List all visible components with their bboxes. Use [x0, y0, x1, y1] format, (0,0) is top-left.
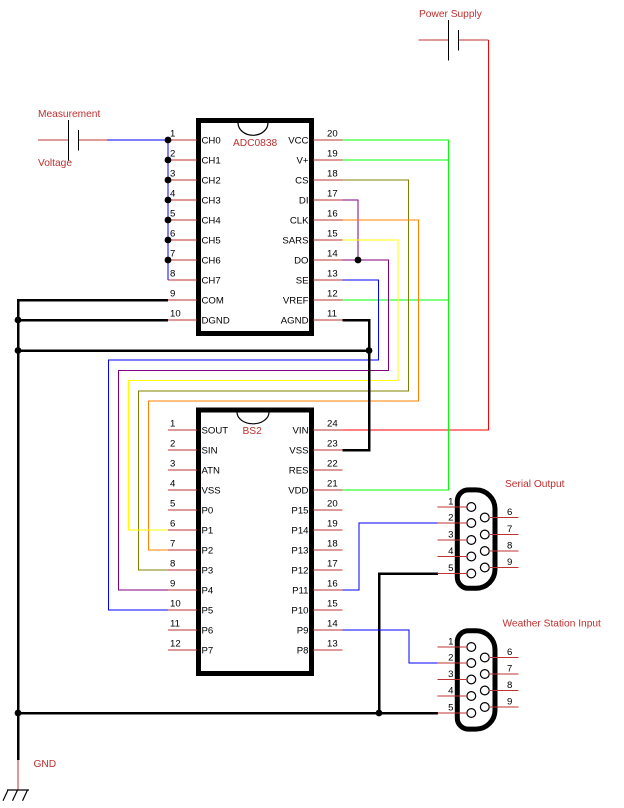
ADC0838 pin 4 CH3	[168, 199, 197, 201]
ADC0838 pin 7 CH6	[168, 259, 197, 261]
svg-text:VSS: VSS	[289, 446, 308, 457]
svg-text:13: 13	[327, 638, 338, 649]
svg-text:2: 2	[448, 652, 453, 663]
svg-text:1: 1	[170, 418, 175, 429]
svg-text:3: 3	[448, 529, 453, 540]
ground earth symbol	[3, 790, 29, 801]
svg-text:14: 14	[327, 618, 338, 629]
svg-text:CH2: CH2	[202, 176, 221, 187]
Serial Output pin 2	[467, 519, 476, 528]
wire orange CLK to P2	[149, 220, 419, 550]
svg-text:4: 4	[170, 478, 176, 489]
BS2 pin 19 P14	[313, 529, 343, 531]
svg-text:5: 5	[448, 563, 453, 574]
Weather Station Input pin 3	[467, 675, 476, 684]
svg-text:8: 8	[507, 680, 512, 691]
BS2 pin 15 P10	[313, 609, 343, 611]
BS2 pin 5 P0	[168, 509, 197, 511]
svg-text:6: 6	[507, 507, 512, 518]
svg-text:1: 1	[448, 496, 453, 507]
svg-text:VIN: VIN	[293, 426, 309, 437]
Weather Station Input pin 1	[467, 643, 476, 652]
svg-text:19: 19	[327, 148, 338, 159]
svg-text:P11: P11	[292, 586, 308, 597]
wire gnd serial DB9 pin5	[379, 574, 438, 714]
svg-text:P14: P14	[291, 526, 309, 537]
junction gnd AGND-VSS	[366, 347, 373, 354]
BS2 pin 12 P7	[168, 649, 197, 651]
ADC0838 pin 13 SE	[313, 279, 343, 281]
svg-text:8: 8	[507, 541, 512, 552]
power supply left lead wire	[419, 39, 449, 41]
svg-text:23: 23	[327, 438, 338, 449]
svg-text:6: 6	[507, 647, 512, 658]
IC U1 ADC0838	[199, 121, 312, 334]
BS2 pin 11 P6	[168, 629, 197, 631]
ADC0838 pin 9 COM	[168, 299, 197, 301]
Weather Station Input pin 6	[480, 653, 489, 662]
svg-text:P8: P8	[297, 646, 309, 657]
svg-text:Weather Station Input: Weather Station Input	[503, 619, 602, 630]
junction CH5	[165, 237, 172, 244]
svg-text:Power Supply: Power Supply	[419, 9, 483, 20]
svg-text:V+: V+	[296, 156, 308, 167]
svg-text:SE: SE	[296, 276, 309, 287]
svg-text:DI: DI	[299, 196, 309, 207]
svg-text:7: 7	[170, 248, 175, 259]
ground GND symbol lead	[17, 760, 19, 790]
junction CH3	[165, 197, 172, 204]
svg-text:4: 4	[448, 546, 454, 557]
BS2 pin 23 VSS	[313, 449, 343, 451]
svg-text:8: 8	[170, 268, 175, 279]
svg-text:6: 6	[170, 228, 175, 239]
svg-text:18: 18	[327, 168, 338, 179]
BS2 top notch	[237, 412, 269, 424]
svg-text:VREF: VREF	[283, 296, 309, 307]
Serial Output pin 6	[480, 513, 489, 522]
wire blue P9 to weather DB9 pin2	[343, 630, 439, 663]
svg-text:11: 11	[327, 308, 337, 319]
svg-text:DO: DO	[294, 256, 308, 267]
ADC0838 pin 3 CH2	[168, 179, 197, 181]
BS2 pin 14 P9	[313, 629, 343, 631]
svg-text:CLK: CLK	[290, 216, 309, 227]
svg-text:12: 12	[170, 638, 181, 649]
svg-text:3: 3	[448, 669, 453, 680]
svg-text:1: 1	[448, 636, 453, 647]
svg-text:21: 21	[327, 478, 338, 489]
svg-text:Serial Output: Serial Output	[505, 479, 565, 490]
BS2 pin 18 P13	[313, 549, 343, 551]
Serial Output pin 1	[467, 503, 476, 512]
ADC0838 pin 1 CH0	[168, 139, 197, 141]
svg-text:3: 3	[170, 458, 175, 469]
svg-text:14: 14	[327, 248, 338, 259]
Weather Station Input pin 4	[467, 692, 476, 701]
svg-text:7: 7	[507, 524, 512, 535]
ADC0838 pin 12 VREF	[313, 299, 343, 301]
svg-text:9: 9	[170, 288, 175, 299]
battery Power Supply: short plate	[458, 30, 460, 51]
svg-text:P2: P2	[202, 546, 214, 557]
svg-text:P13: P13	[291, 546, 308, 557]
svg-text:RES: RES	[289, 466, 309, 477]
BS2 pin 17 P12	[313, 569, 343, 571]
svg-text:P0: P0	[202, 506, 214, 517]
svg-text:5: 5	[170, 208, 175, 219]
ADC0838 pin 18 CS	[313, 179, 343, 181]
svg-text:15: 15	[327, 598, 338, 609]
BS2 pin 20 P15	[313, 509, 343, 511]
svg-text:P9: P9	[297, 626, 309, 637]
battery Measurement Voltage: long plate	[68, 120, 70, 161]
BS2 pin 1 SOUT	[168, 429, 197, 431]
wire green VREF	[343, 299, 449, 301]
svg-text:3: 3	[170, 168, 175, 179]
svg-text:CH7: CH7	[202, 276, 221, 287]
Weather Station Input pin 5	[467, 709, 476, 718]
svg-text:7: 7	[170, 538, 175, 549]
junction gnd serial pin5	[376, 710, 383, 717]
svg-text:BS2: BS2	[243, 426, 263, 437]
ADC0838 pin 19 V+	[313, 159, 343, 161]
svg-text:CH4: CH4	[202, 216, 222, 227]
ADC0838 pin 11 AGND	[313, 319, 343, 321]
svg-text:CH3: CH3	[202, 196, 221, 207]
svg-text:10: 10	[170, 598, 181, 609]
svg-text:VSS: VSS	[202, 486, 221, 497]
junction CH0	[165, 137, 172, 144]
svg-text:VCC: VCC	[288, 136, 308, 147]
connector Serial Output DB9 body	[457, 490, 495, 588]
svg-text:7: 7	[507, 664, 512, 675]
svg-text:20: 20	[327, 128, 338, 139]
junction gnd DGND	[15, 317, 22, 324]
BS2 pin 22 RES	[313, 469, 343, 471]
svg-text:COM: COM	[202, 296, 224, 307]
ADC0838 pin 17 DI	[313, 199, 343, 201]
svg-text:P10: P10	[291, 606, 308, 617]
wire gnd COM	[18, 300, 168, 760]
wire olive CS to P3	[139, 180, 409, 570]
svg-text:2: 2	[448, 512, 453, 523]
junction CH6	[165, 257, 172, 264]
Weather Station Input pin 2	[467, 659, 476, 668]
svg-text:CH0: CH0	[202, 136, 221, 147]
Serial Output pin 8	[480, 547, 489, 556]
BS2 pin 13 P8	[313, 649, 343, 651]
svg-text:5: 5	[170, 498, 175, 509]
battery Power Supply: long plate	[448, 20, 450, 61]
svg-text:P7: P7	[202, 646, 214, 657]
BS2 pin 9 P4	[168, 589, 197, 591]
wire green V+	[343, 159, 449, 161]
battery left lead wire	[38, 139, 68, 141]
svg-text:5: 5	[448, 702, 453, 713]
wire blue SE to P5	[109, 280, 379, 610]
svg-text:SARS: SARS	[282, 236, 308, 247]
svg-text:13: 13	[327, 268, 338, 279]
svg-text:4: 4	[170, 188, 176, 199]
svg-text:18: 18	[327, 538, 338, 549]
BS2 pin 16 P11	[313, 589, 343, 591]
Serial Output pin 7	[480, 530, 489, 539]
wire gnd AGND	[343, 320, 370, 450]
BS2 pin 24 VIN	[313, 429, 343, 431]
Serial Output pin 9	[480, 563, 489, 572]
connector Weather Station Input DB9 body	[457, 631, 495, 729]
wire gnd bottom bus	[18, 712, 438, 715]
svg-text:CH5: CH5	[202, 236, 221, 247]
svg-text:16: 16	[327, 578, 338, 589]
wire red power supply to VIN	[343, 40, 489, 430]
wire blue CH0 net from battery	[107, 139, 168, 141]
Weather Station Input pin 7	[480, 670, 489, 679]
svg-text:P15: P15	[291, 506, 308, 517]
wire blue CH0-CH7 bus vertical	[167, 140, 169, 280]
Weather Station Input pin 9	[480, 703, 489, 712]
svg-text:1: 1	[170, 128, 175, 139]
svg-text:9: 9	[507, 557, 512, 568]
wire gnd mid bus	[18, 349, 369, 352]
svg-text:DGND: DGND	[202, 316, 230, 327]
ADC0838 pin 16 CLK	[313, 219, 343, 221]
IC U2 BS2	[199, 410, 312, 674]
BS2 pin 2 SIN	[168, 449, 197, 451]
svg-text:CH1: CH1	[202, 156, 221, 167]
svg-text:10: 10	[170, 308, 181, 319]
svg-text:P4: P4	[202, 586, 214, 597]
svg-text:9: 9	[170, 578, 175, 589]
junction CH2	[165, 177, 172, 184]
svg-text:17: 17	[327, 188, 338, 199]
ADC0838 pin 20 VCC	[313, 139, 343, 141]
wire purple DO to P4	[119, 260, 389, 590]
Weather Station Input pin 8	[480, 686, 489, 695]
ADC0838 top notch	[238, 123, 268, 135]
BS2 pin 4 VSS	[168, 489, 197, 491]
svg-text:P12: P12	[291, 566, 308, 577]
svg-text:20: 20	[327, 498, 338, 509]
svg-text:9: 9	[507, 697, 512, 708]
junction gnd mid bus left	[15, 347, 22, 354]
svg-text:17: 17	[327, 558, 338, 569]
BS2 pin 10 P5	[168, 609, 197, 611]
BS2 pin 8 P3	[168, 569, 197, 571]
wire gnd DGND	[18, 319, 168, 322]
svg-text:24: 24	[327, 418, 338, 429]
Serial Output pin 5	[467, 569, 476, 578]
BS2 pin 7 P2	[168, 549, 197, 551]
svg-text:VDD: VDD	[288, 486, 308, 497]
junction CH4	[165, 217, 172, 224]
svg-text:16: 16	[327, 208, 338, 219]
svg-text:CS: CS	[295, 176, 308, 187]
ADC0838 pin 2 CH1	[168, 159, 197, 161]
ADC0838 pin 14 DO	[313, 259, 343, 261]
svg-text:8: 8	[170, 558, 175, 569]
wire blue P11 to serial DB9 pin2	[343, 523, 439, 590]
svg-text:P1: P1	[202, 526, 214, 537]
ADC0838 pin 5 CH4	[168, 219, 197, 221]
junction DI-DO	[355, 257, 362, 264]
svg-text:AGND: AGND	[281, 316, 309, 327]
BS2 pin 6 P1	[168, 529, 197, 531]
Serial Output pin 3	[467, 536, 476, 545]
wire yellow SARS to P1	[129, 240, 399, 530]
BS2 pin 3 ATN	[168, 469, 197, 471]
svg-text:19: 19	[327, 518, 338, 529]
svg-text:ADC0838: ADC0838	[233, 138, 278, 149]
svg-text:P6: P6	[202, 626, 214, 637]
svg-text:2: 2	[170, 148, 175, 159]
wire green VCC	[343, 140, 449, 490]
svg-text:Voltage: Voltage	[38, 158, 72, 169]
battery Measurement Voltage: short plate	[78, 130, 80, 151]
svg-text:15: 15	[327, 228, 338, 239]
junction CH1	[165, 157, 172, 164]
svg-text:SIN: SIN	[202, 446, 218, 457]
BS2 pin 21 VDD	[313, 489, 343, 491]
power supply right lead wire	[459, 39, 489, 41]
svg-text:4: 4	[448, 685, 454, 696]
svg-text:CH6: CH6	[202, 256, 221, 267]
battery right lead wire	[79, 139, 108, 141]
svg-text:GND: GND	[34, 759, 57, 770]
svg-text:Measurement: Measurement	[38, 109, 100, 120]
ADC0838 pin 8 CH7	[168, 279, 197, 281]
svg-text:P5: P5	[202, 606, 214, 617]
svg-text:22: 22	[327, 458, 338, 469]
svg-text:SOUT: SOUT	[202, 426, 229, 437]
ADC0838 pin 6 CH5	[168, 239, 197, 241]
ADC0838 pin 10 DGND	[168, 319, 197, 321]
svg-text:6: 6	[170, 518, 175, 529]
junction gnd bottom left	[15, 710, 22, 717]
Serial Output pin 4	[467, 552, 476, 561]
svg-text:2: 2	[170, 438, 175, 449]
wire purple DI branch	[343, 200, 359, 260]
ADC0838 pin 15 SARS	[313, 239, 343, 241]
svg-text:ATN: ATN	[202, 466, 221, 477]
svg-text:11: 11	[170, 618, 180, 629]
svg-text:12: 12	[327, 288, 338, 299]
svg-text:P3: P3	[202, 566, 214, 577]
